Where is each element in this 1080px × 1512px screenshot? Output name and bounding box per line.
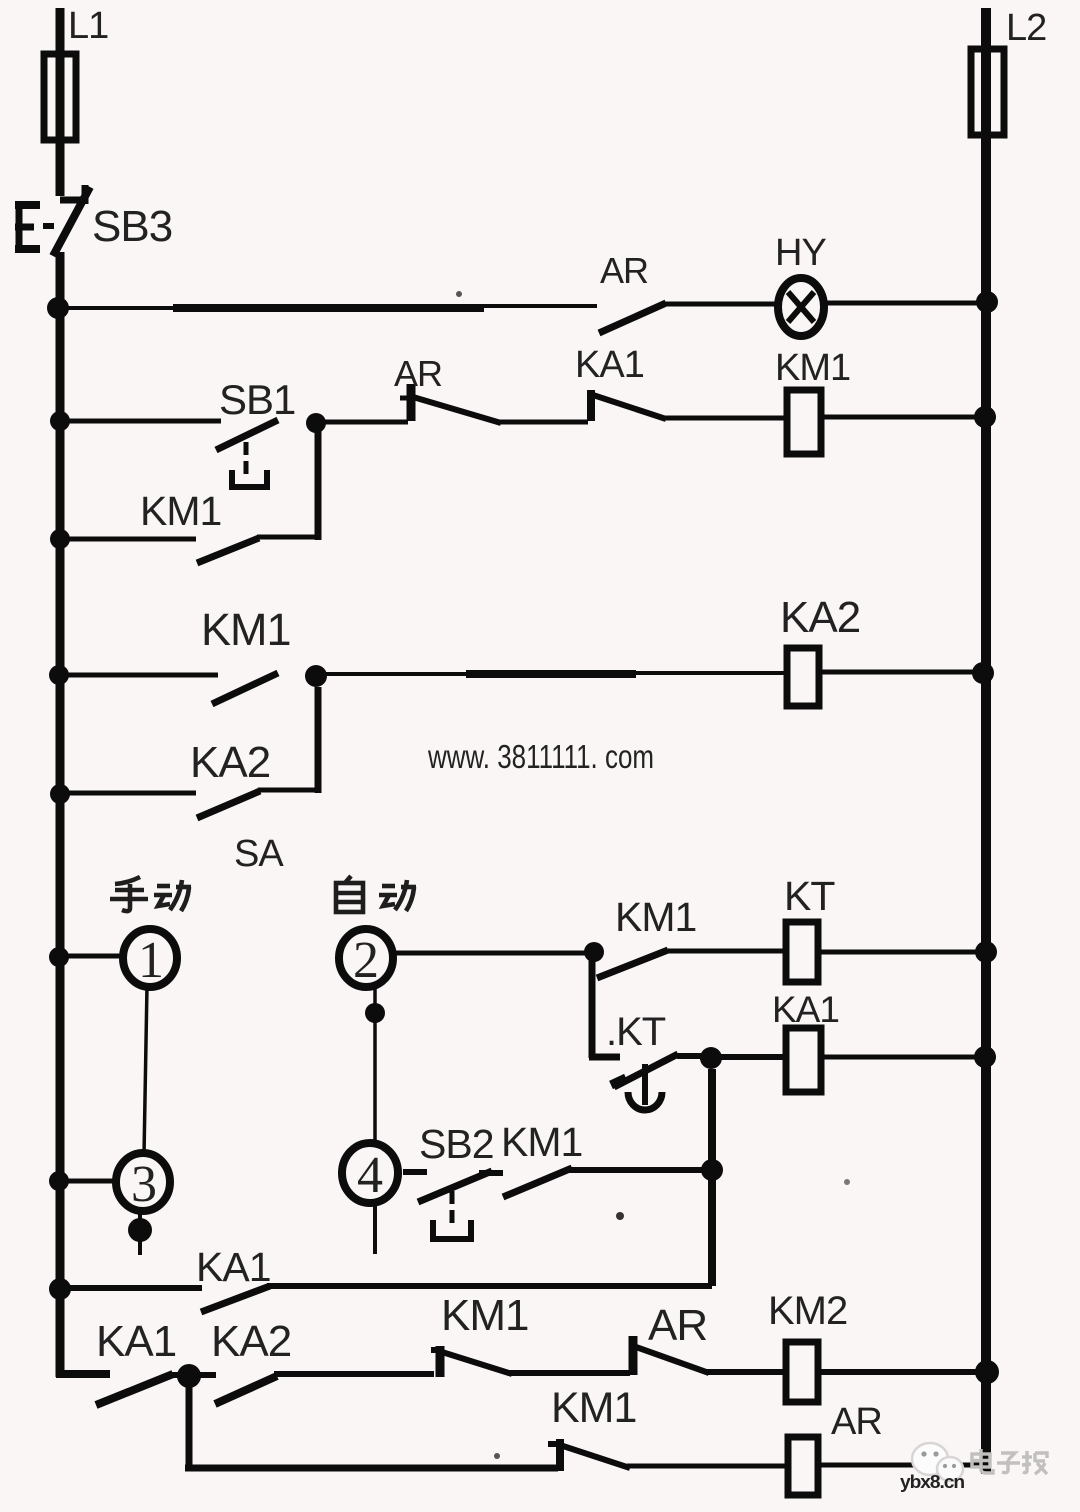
wire [706, 1369, 786, 1375]
svg-text:4: 4 [357, 1147, 383, 1204]
wire [569, 1167, 703, 1173]
svg-text:KM1: KM1 [441, 1291, 528, 1340]
coil KA2 [787, 648, 819, 706]
contact KM1 NO (SB2 rung) [503, 1168, 572, 1197]
pushbutton SB1 (NO start) [216, 420, 278, 488]
svg-text:KA1: KA1 [575, 344, 644, 386]
wire vertical to junction [315, 425, 322, 540]
pushbutton SB2 (NO) [418, 1171, 503, 1240]
contact KM1 NO (KT rung) [597, 950, 668, 978]
speck [494, 1453, 500, 1459]
svg-text:SB3: SB3 [92, 202, 172, 251]
wire [258, 788, 315, 793]
wire [664, 416, 787, 421]
svg-text:KM1: KM1 [140, 488, 221, 534]
svg-text:KA1: KA1 [96, 1317, 176, 1366]
speck [616, 1212, 624, 1220]
svg-text:AR: AR [394, 353, 442, 394]
svg-text:AR: AR [600, 250, 648, 291]
contact KT delayed NO [611, 1054, 701, 1110]
svg-text:ybx8.cn: ybx8.cn [900, 1472, 964, 1492]
SA terminal 3 [116, 1153, 170, 1211]
watermark 电子报 (drawn glyphs) [972, 1449, 1047, 1474]
svg-text:SB1: SB1 [219, 376, 295, 423]
contact KA2 NO (rung9) [215, 1376, 277, 1404]
svg-text:L1: L1 [68, 5, 108, 47]
wire [818, 1369, 981, 1375]
wire rung3 continues [316, 673, 787, 674]
node SB2-rung-right [701, 1159, 723, 1181]
svg-text:3: 3 [131, 1156, 156, 1213]
svg-text:AR: AR [648, 1301, 707, 1350]
auto label 自动 (drawn glyphs) [336, 876, 416, 912]
stub below terminal 4 [373, 1203, 377, 1254]
coil KM2 [786, 1342, 818, 1402]
svg-text:KM1: KM1 [775, 347, 850, 389]
SA terminal 4 [342, 1143, 398, 1203]
svg-text:1: 1 [138, 932, 163, 989]
wire [663, 302, 780, 307]
left rail [56, 252, 65, 1377]
wire [818, 950, 981, 955]
SA terminal 2 [339, 929, 393, 987]
node rung3-right [972, 662, 994, 684]
node KT-rung-left [584, 942, 604, 962]
contact KA1 NC (rung2) [591, 390, 666, 421]
contact AR NC (rung2) [400, 384, 501, 423]
wire to terminal 3 [60, 1179, 118, 1184]
wire [821, 1055, 981, 1060]
wire [819, 670, 981, 675]
wire [821, 415, 981, 420]
wire [316, 420, 408, 425]
right rail [981, 8, 991, 1474]
svg-text:L2: L2 [1006, 7, 1046, 49]
wire terminal2 to terminal4 [373, 986, 377, 1145]
wire [700, 1054, 786, 1060]
wire [509, 1370, 630, 1376]
wire KA2 branch [60, 791, 196, 796]
wire hold branch [60, 537, 196, 542]
svg-text:AR: AR [831, 1401, 882, 1443]
wire terminal1 to terminal3 [144, 986, 147, 1155]
wire [257, 535, 315, 540]
wire to terminal 1 [60, 954, 124, 959]
node SA1-left [49, 947, 69, 967]
node KA1-rung-junction [700, 1047, 722, 1069]
svg-text:KM1: KM1 [615, 894, 696, 940]
node rung2-left [50, 411, 70, 431]
speck [456, 291, 462, 297]
svg-text:KA2: KA2 [190, 738, 270, 787]
svg-text:KA1: KA1 [196, 1244, 271, 1290]
svg-text:KA2: KA2 [211, 1317, 291, 1366]
svg-text:HY: HY [775, 232, 826, 274]
contact KA1 NO (rung9) [96, 1374, 173, 1405]
wire rung10 [185, 1465, 558, 1472]
wire from terminal 2 [393, 951, 590, 956]
stub below terminal 3 [138, 1211, 142, 1255]
wire vertical x712 [708, 1069, 716, 1286]
lamp HY [778, 278, 824, 336]
wire [267, 1283, 712, 1289]
wire rung3 [60, 673, 218, 678]
wire [170, 1372, 216, 1378]
wire rung2 [60, 419, 221, 424]
contact AR (rung1) [599, 303, 666, 333]
node rung9-junction [177, 1364, 201, 1388]
node rung1-right [976, 291, 998, 313]
wire rung1 [60, 306, 597, 308]
fuse FU1 [44, 54, 76, 140]
node rung3-left [49, 665, 69, 685]
wire [824, 301, 981, 306]
wire vertical to rung10 [186, 1382, 193, 1468]
svg-text:KM1: KM1 [551, 1384, 636, 1432]
wire [499, 420, 588, 425]
node rung2-junction [306, 413, 326, 433]
svg-text:KM2: KM2 [768, 1289, 847, 1333]
SA terminal 1 [123, 929, 177, 987]
node rung1-left [47, 297, 69, 319]
node below terminal 2 [365, 1003, 385, 1023]
contact KA2 NO (branch) [197, 791, 260, 818]
node KT-rung-right [975, 941, 997, 963]
node KA1-rung-right [974, 1046, 996, 1068]
contact AR NC (rung9) [633, 1336, 709, 1375]
coil AR [788, 1437, 818, 1495]
contact KM1 NC (rung10) [548, 1439, 630, 1471]
coil KM1 [787, 390, 821, 454]
watermark logo [912, 1441, 963, 1483]
contact KM1 NO (rung3) [212, 673, 278, 704]
svg-text:SA: SA [234, 833, 284, 875]
svg-text:2: 2 [353, 932, 378, 989]
node SA3-left [49, 1171, 69, 1191]
svg-text:www. 3811111. com: www. 3811111. com [427, 738, 654, 775]
svg-text:KA2: KA2 [780, 593, 860, 642]
contact KA1 NO (rung8) [201, 1286, 270, 1312]
node ka2branch-left [50, 784, 70, 804]
wire [627, 1464, 788, 1469]
speck [844, 1179, 850, 1185]
wire stub right of terminal 4 [403, 1169, 427, 1175]
wire [818, 1463, 981, 1468]
svg-text:SB2: SB2 [419, 1121, 494, 1167]
contact KM1 NC (rung9) [431, 1346, 512, 1377]
wire rung8 [60, 1285, 202, 1291]
node holdbranch-left [50, 529, 70, 549]
node rung9-right [975, 1360, 999, 1384]
fuse FU2 [971, 49, 1004, 135]
wire [274, 1371, 434, 1377]
coil KT [786, 922, 818, 982]
wire rail bottom corner stub [56, 1370, 110, 1378]
svg-text:KT: KT [784, 873, 835, 919]
pushbutton SB3 (NC mushroom stop) [15, 185, 90, 256]
node rung3-junction [305, 665, 327, 687]
wire vertical drop to KT contact [589, 955, 620, 1058]
svg-text:KM1: KM1 [501, 1119, 582, 1165]
manual label 手动 (drawn glyphs) [110, 877, 191, 911]
svg-text:.KT: .KT [606, 1010, 666, 1054]
contact KM1 NO (self hold) [197, 538, 259, 563]
coil KA1 [786, 1028, 821, 1092]
wire vertical to junction [315, 687, 322, 793]
wire L1 supply lead [56, 8, 65, 196]
svg-text:KM1: KM1 [201, 604, 291, 655]
node below terminal 3 [128, 1218, 152, 1242]
node rung8-left [49, 1278, 71, 1300]
node rung2-right [974, 406, 996, 428]
wire [665, 949, 786, 954]
svg-text:KA1: KA1 [772, 989, 839, 1030]
